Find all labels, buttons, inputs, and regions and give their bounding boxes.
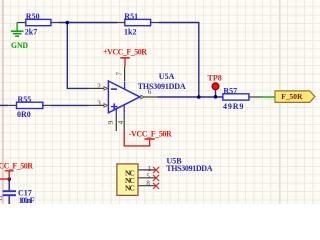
svg-text:1k2: 1k2 [124,27,136,36]
svg-text:-VCC_F_50R: -VCC_F_50R [129,130,172,139]
svg-text:3: 3 [97,100,101,108]
svg-text:0R0: 0R0 [17,110,31,119]
svg-text:THS3091DDA: THS3091DDA [166,164,212,173]
svg-text:6: 6 [148,88,152,96]
svg-text:7: 7 [116,72,124,76]
svg-text:8: 8 [146,179,150,187]
svg-text:R50: R50 [26,12,40,21]
svg-text:100nF: 100nF [0,195,3,204]
svg-text:+VCC_F_50R: +VCC_F_50R [0,162,33,171]
svg-text:R57: R57 [223,86,237,95]
svg-text:100nF: 100nF [19,196,35,204]
svg-text:U5A: U5A [159,72,175,81]
svg-text:4: 4 [117,120,125,124]
svg-text:9: 9 [107,120,115,124]
svg-text:49R9: 49R9 [223,102,244,111]
svg-text:R55: R55 [18,95,32,104]
svg-text:F_50R: F_50R [281,92,303,101]
svg-text:2: 2 [97,83,101,91]
svg-text:R51: R51 [124,12,138,21]
svg-text:GND: GND [11,41,28,50]
svg-text:TP8: TP8 [208,73,222,82]
svg-text:2k7: 2k7 [25,27,37,36]
svg-text:+VCC_F_50R: +VCC_F_50R [103,47,147,56]
svg-text:NC: NC [125,183,135,192]
svg-text:THS3091DDA: THS3091DDA [138,82,186,91]
